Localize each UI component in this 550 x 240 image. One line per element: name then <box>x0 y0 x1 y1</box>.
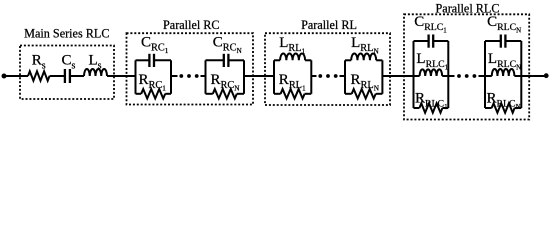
wire: right side of RC cell 1 <box>170 60 172 94</box>
wire: left terminal to Rs <box>4 75 28 77</box>
inductor L_RLC1 <box>414 75 420 77</box>
svg-text:CRC1: CRC1 <box>141 35 169 56</box>
resistor R_RC1 <box>136 93 142 95</box>
capacitor C_RLCN <box>485 40 501 42</box>
wire: ellipsis to RC cell N <box>201 75 206 77</box>
svg-text:Ls: Ls <box>89 52 102 71</box>
wire: left side of RLC cell N <box>484 41 486 108</box>
wire: right side of RL cell 1 <box>310 60 312 94</box>
svg-text:LRLC1: LRLC1 <box>416 51 448 72</box>
svg-text:Parallel RL: Parallel RL <box>301 18 357 32</box>
ellipsis dots (repeated RLC cells) <box>457 74 461 78</box>
svg-text:RRLCN: RRLCN <box>487 91 521 112</box>
svg-text:CRCN: CRCN <box>213 35 243 56</box>
wire: Cs to Ls <box>70 75 84 77</box>
wire: left side of RLC cell 1 <box>413 41 415 108</box>
resistor Rs <box>28 71 50 80</box>
inductor L_RLCN <box>485 75 492 77</box>
wire: left side of RC cell N <box>205 60 207 94</box>
resistor R_RLN <box>345 93 352 95</box>
inductor Ls <box>84 69 107 76</box>
wire: left side of RL cell 1 <box>273 60 275 94</box>
terminal node (right) <box>544 73 549 78</box>
svg-text:Main Series RLC: Main Series RLC <box>24 26 109 40</box>
svg-text:CRLC1: CRLC1 <box>414 14 447 35</box>
wire: RL cell 1 to ellipsis <box>311 75 316 77</box>
inductor L_RL1 <box>274 59 280 61</box>
wire: Rs to Cs <box>50 75 65 77</box>
wire: RLC cell N to right terminal <box>521 75 546 77</box>
capacitor Cs <box>64 69 66 83</box>
wire: RC cell 1 to ellipsis <box>171 75 178 77</box>
wire: right side of RL cell N <box>381 60 383 94</box>
wire: ellipsis to RLC cell N <box>479 75 486 77</box>
svg-text:Rs: Rs <box>32 53 46 72</box>
wire: RLC cell 1 to ellipsis <box>448 75 454 77</box>
ellipsis dots (repeated RC cells) <box>179 74 183 78</box>
dashed group box: Parallel RC <box>127 33 254 104</box>
wire: RC cell N to RL section <box>244 75 274 77</box>
wire: RL cell N to RLC section <box>382 75 413 77</box>
svg-text:Cs: Cs <box>62 52 76 71</box>
resistor R_RLCN <box>485 107 492 109</box>
dashed group box: Parallel RL <box>265 33 390 105</box>
svg-text:Parallel RC: Parallel RC <box>163 18 220 32</box>
ellipsis dots (repeated RL cells) <box>318 74 322 78</box>
wire: ellipsis to RL cell N <box>340 75 346 77</box>
inductor L_RLN <box>345 59 351 61</box>
wire: right side of RLC cell 1 <box>447 41 449 108</box>
resistor R_RCN <box>206 93 213 95</box>
resistor R_RLC1 <box>414 107 420 109</box>
svg-text:LRLN: LRLN <box>351 35 379 56</box>
dashed group box: Main Series RLC <box>20 46 114 100</box>
wire: left side of RL cell N <box>344 60 346 94</box>
wire: right side of RLC cell N <box>520 41 522 108</box>
wire: right side of RC cell N <box>243 60 245 94</box>
resistor R_RL1 <box>274 93 281 95</box>
wire: left side of RC cell 1 <box>135 60 137 94</box>
wire: Ls to first RC cell <box>107 75 136 77</box>
capacitor C_RLC1 <box>414 40 429 42</box>
dashed group box: Parallel RLC <box>404 14 529 119</box>
terminal node (left) <box>2 74 7 79</box>
capacitor C_RC1 <box>136 59 150 61</box>
svg-text:Parallel RLC: Parallel RLC <box>436 1 500 15</box>
capacitor C_RCN <box>206 59 224 61</box>
svg-text:CRLCN: CRLCN <box>487 14 521 35</box>
